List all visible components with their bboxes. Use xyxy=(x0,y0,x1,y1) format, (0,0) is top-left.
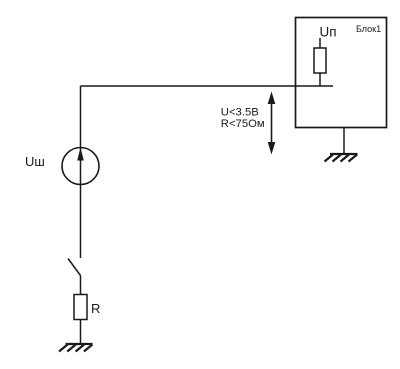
wire: resistor R to ground xyxy=(80,320,82,345)
ground (left, below R) xyxy=(59,344,93,352)
wire: vertical wire from top corner through source U_sh down to switch xyxy=(80,86,82,258)
wire: switch to resistor R xyxy=(80,276,82,295)
wire: resistor in box to horizontal wire xyxy=(319,73,321,86)
resistor R xyxy=(74,295,87,320)
wire: horizontal top wire from source branch to Блок1 xyxy=(81,85,334,87)
ground (below Блок1) xyxy=(325,154,358,162)
switch S1 (open blade) xyxy=(68,259,81,276)
svg-text:R<75Ом: R<75Ом xyxy=(221,118,265,130)
arrow of source Uш xyxy=(77,148,84,161)
wire: Блок1 bottom to ground xyxy=(343,128,345,155)
svg-text:Uш: Uш xyxy=(25,154,45,169)
wire: Uп lead to resistor in box xyxy=(319,38,321,48)
box Блок1 xyxy=(296,18,387,128)
dimension arrow (double-headed) xyxy=(268,92,276,155)
svg-text:U<3.5В: U<3.5В xyxy=(221,107,259,119)
source Uш (circle) xyxy=(62,148,99,185)
svg-text:Uп: Uп xyxy=(320,24,337,39)
svg-text:Блок1: Блок1 xyxy=(356,24,381,34)
svg-text:R: R xyxy=(91,301,100,316)
resistor in Блок1 xyxy=(314,48,326,73)
